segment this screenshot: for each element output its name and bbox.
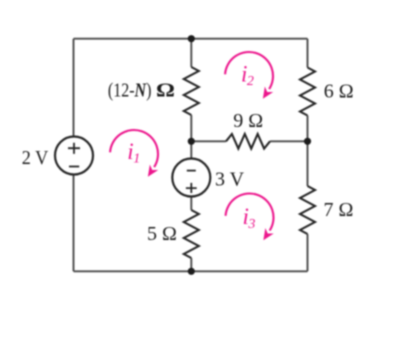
voltage source V2 3V (circle) bbox=[172, 159, 210, 197]
wire middle branch (resistor to 3V source) bbox=[190, 115, 192, 159]
wire bottom bbox=[74, 270, 308, 272]
wire: outer loop (top, left, bottom, right) bbox=[74, 39, 308, 272]
wire left (bottom segment below 2V source) bbox=[73, 175, 75, 271]
svg-text:6 Ω: 6 Ω bbox=[324, 81, 354, 103]
wire top bbox=[74, 38, 308, 40]
voltage source V1 2V (circle) bbox=[55, 137, 93, 175]
mesh current arrow i2 (arc) bbox=[225, 52, 273, 99]
svg-text:7 Ω: 7 Ω bbox=[324, 199, 354, 221]
wire right (above 6-ohm) bbox=[307, 39, 309, 68]
wire middle branch (top to (12-N) resistor) bbox=[190, 39, 192, 67]
voltage source V2 plus sign (bottom) bbox=[186, 183, 197, 193]
svg-text:2 V: 2 V bbox=[22, 147, 49, 169]
mesh current arrow i3 (arc) bbox=[226, 193, 274, 240]
mesh current arrow i1 (arc) bbox=[110, 130, 158, 177]
resistor R 9-ohm zigzag (horizontal) bbox=[226, 134, 270, 149]
node junction dot (middle branch / 9-ohm branch) bbox=[188, 138, 195, 145]
voltage source V2 minus sign (top) bbox=[187, 170, 196, 172]
svg-text:(12-N): (12-N) bbox=[108, 79, 152, 102]
wire middle branch (3V source to 5-ohm) bbox=[190, 197, 192, 211]
wire middle branch (5-ohm to bottom) bbox=[190, 258, 192, 271]
wire right (below 7-ohm) bbox=[307, 234, 309, 271]
resistor R 6-ohm zigzag bbox=[300, 68, 315, 116]
wire right (between 6-ohm and 7-ohm) bbox=[307, 116, 309, 187]
svg-text:9 Ω: 9 Ω bbox=[233, 110, 263, 132]
svg-text:i1: i1 bbox=[127, 139, 140, 167]
resistor R 7-ohm zigzag bbox=[300, 186, 315, 234]
voltage source V1 minus sign bbox=[69, 166, 79, 168]
wire left (top segment above 2V source) bbox=[73, 39, 75, 136]
svg-text:i2: i2 bbox=[241, 62, 254, 90]
svg-text:5 Ω: 5 Ω bbox=[147, 223, 177, 245]
svg-text:i3: i3 bbox=[243, 204, 256, 232]
wire 9-ohm branch (right lead) bbox=[270, 140, 308, 142]
node junction dot (right branch / 9-ohm branch) bbox=[304, 138, 311, 145]
node junction dot bottom (middle branch / bottom wire) bbox=[188, 268, 195, 275]
resistor (12-N) ohm zigzag bbox=[184, 67, 199, 115]
node junction dot top (middle branch / top wire) bbox=[188, 35, 195, 42]
voltage source V1 plus sign bbox=[68, 143, 80, 154]
svg-text:Ω: Ω bbox=[156, 79, 175, 101]
svg-text:3 V: 3 V bbox=[215, 169, 245, 191]
wire 9-ohm branch (left lead) bbox=[191, 140, 226, 142]
resistor R 5-ohm zigzag bbox=[184, 210, 199, 258]
